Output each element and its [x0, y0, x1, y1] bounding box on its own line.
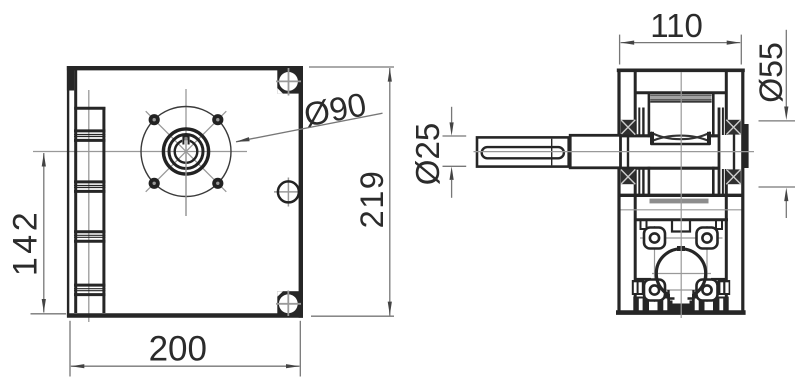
strip vertical centerline [88, 90, 90, 322]
centerline horizontal of flange [33, 151, 247, 153]
dimension 219 [309, 67, 394, 316]
bridge line right [711, 278, 727, 280]
left foot block [633, 297, 649, 311]
thick top-left corner bar [67, 66, 74, 91]
main vertical centerline [680, 72, 682, 318]
hub outer ring [163, 129, 208, 174]
bearing top-left [621, 120, 636, 135]
top T-slot center [672, 221, 690, 232]
dimension Ø25 [409, 107, 466, 198]
bolt hole top-right [212, 114, 223, 125]
svg-text:Ø25: Ø25 [409, 123, 446, 185]
svg-text:200: 200 [149, 330, 207, 369]
center base block [658, 291, 705, 311]
bearing bottom-left [621, 169, 636, 184]
svg-text:142: 142 [6, 209, 44, 276]
centerline vertical of flange [185, 89, 187, 216]
rib group 1 [74, 131, 106, 141]
hub bore circle [175, 140, 198, 163]
body outline left edge [67, 66, 69, 316]
svg-text:110: 110 [650, 7, 703, 44]
body outline right edge [299, 66, 303, 318]
svg-text:219: 219 [354, 170, 390, 229]
side strip left edge [74, 70, 77, 313]
bearing race edge left [627, 135, 629, 170]
bearing race edge right [733, 135, 735, 170]
lower profile top line [634, 218, 728, 221]
striped washer bar [650, 94, 711, 102]
housing top cavity bottom line [635, 91, 727, 94]
top tab of bore [677, 246, 685, 251]
mid cavity bottom line [619, 194, 743, 197]
dimension Ø55 [753, 30, 795, 218]
output cap on right wall [743, 124, 748, 168]
rib group 3 [74, 232, 106, 242]
side slot right [718, 280, 731, 295]
inner wall right [725, 70, 728, 311]
bolt hole top-left [149, 114, 160, 125]
screw boss top-left [644, 228, 665, 249]
screw boss top-right [697, 228, 718, 249]
rib group 2 [74, 182, 106, 192]
bolt hole bottom-right [212, 178, 223, 189]
gray bar [650, 199, 709, 204]
screw boss bottom-right [697, 280, 718, 301]
inner wall left [634, 70, 637, 311]
bolt circle Ø90 [141, 107, 231, 197]
cavity wall left [648, 94, 651, 195]
bearing bottom-right [726, 169, 741, 184]
side slot left [632, 280, 645, 295]
bolt hole bottom-left [149, 178, 160, 189]
hub middle ring [169, 135, 203, 169]
keyway slot on shaft [482, 147, 564, 158]
centerline diagonal NE-SW [146, 111, 227, 192]
bearing top-right [726, 120, 741, 135]
body outline top edge [67, 66, 303, 70]
dimension 142 [6, 153, 66, 314]
cavity wall right [712, 94, 715, 195]
bearing seat line left [642, 108, 644, 197]
dimension 110 [620, 7, 742, 65]
gray line [620, 209, 743, 211]
top T-slot right [716, 221, 722, 230]
svg-text:Ø55: Ø55 [753, 42, 789, 102]
input shaft body [477, 137, 569, 166]
centerline diagonal NW-SE [146, 111, 227, 192]
housing outer rect [616, 69, 746, 313]
worm hub band [621, 136, 719, 168]
worm wheel throat element [650, 131, 711, 145]
bottom channel floor line [668, 306, 694, 308]
top T-slot left [641, 221, 647, 230]
bearing seat line right / hub end [718, 108, 721, 197]
bearing seat inner line right [722, 108, 724, 197]
input shaft step section [570, 135, 620, 168]
bridge line left [635, 278, 651, 280]
label Ø90 with leader [236, 85, 383, 142]
corner patch top-right with bolt hole [276, 66, 303, 96]
corner patch bottom-right with bolt hole [276, 291, 303, 318]
boss centerline grid [640, 226, 723, 302]
right foot block [713, 297, 729, 311]
dimension 200 [70, 321, 300, 377]
keyway slot [182, 137, 190, 216]
body outline bottom edge [67, 313, 303, 317]
edge circle middle-right [278, 181, 299, 202]
key end line [551, 139, 553, 166]
side strip right edge [102, 107, 105, 313]
edge circle middle-right crosshair [274, 178, 300, 207]
bearing seat inner line left [638, 108, 640, 197]
rib group 4 [74, 285, 106, 295]
shaft centerline [474, 151, 755, 153]
screw boss bottom-left [644, 280, 665, 301]
central bore circle [656, 249, 705, 301]
side strip top edge [74, 107, 105, 110]
